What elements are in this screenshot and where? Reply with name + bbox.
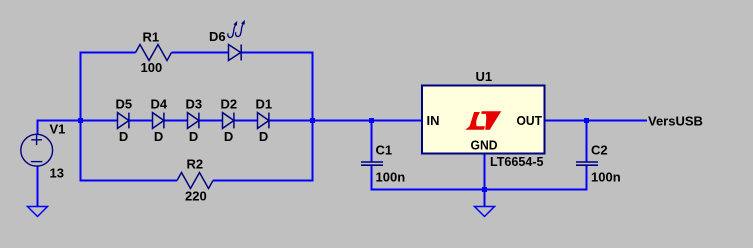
wire R2 row left (80, 180, 178, 182)
wire node B to C1 node (313, 120, 372, 122)
diode D3 (188, 113, 199, 129)
svg-text:D4: D4 (151, 97, 168, 112)
resistor R2 (177, 173, 213, 189)
wire V1 top to left node (38, 121, 81, 135)
ground (under V1) (28, 207, 48, 217)
voltage source V1 (21, 134, 53, 166)
wire right vertical (312, 52, 314, 182)
svg-text:D5: D5 (116, 97, 133, 112)
junction node C1 tap (369, 118, 374, 123)
regulator U1 body (422, 86, 545, 154)
svg-text:220: 220 (185, 189, 207, 204)
wire OUT pin to C2 node (544, 120, 587, 122)
capacitor C1 (361, 162, 383, 165)
svg-text:VersUSB: VersUSB (648, 114, 703, 129)
wire D6 to top-right corner (241, 52, 313, 54)
diode D2 (223, 113, 234, 129)
wire C2 bottom lead to rail (586, 166, 588, 190)
LED D6 (229, 45, 242, 61)
svg-text:U1: U1 (476, 69, 493, 84)
wire D2 to D1 (234, 120, 258, 122)
wire D3 to D2 (199, 120, 223, 122)
svg-text:R2: R2 (187, 157, 204, 172)
wire D1 to node B (269, 120, 313, 122)
LT logo (465, 111, 501, 130)
svg-text:IN: IN (427, 113, 440, 128)
svg-text:OUT: OUT (517, 113, 543, 128)
svg-text:C1: C1 (376, 143, 393, 158)
svg-text:D2: D2 (221, 97, 238, 112)
svg-text:D: D (259, 129, 268, 144)
svg-text:GND: GND (471, 138, 498, 153)
svg-text:D: D (154, 129, 163, 144)
diode D1 (258, 113, 269, 129)
svg-text:R1: R1 (143, 30, 160, 45)
wire C2 top lead (586, 121, 588, 162)
wire C2 node to VersUSB label (587, 120, 648, 122)
wire left vertical (80, 52, 82, 182)
wire mid row node to D5 (81, 120, 118, 122)
svg-text:D3: D3 (186, 97, 203, 112)
wire C1 top lead (371, 121, 373, 162)
svg-text:D6: D6 (209, 29, 226, 44)
svg-text:LT6654-5: LT6654-5 (490, 154, 544, 169)
diode D4 (153, 113, 164, 129)
wire R2 row right (213, 180, 314, 182)
capacitor C2 (576, 162, 598, 165)
wire C1 bottom lead to rail (371, 166, 373, 190)
diode D5 (118, 113, 129, 129)
svg-text:D: D (189, 129, 198, 144)
wire V1 bottom to ground (37, 166, 39, 206)
wire U1 GND pin to rail (484, 154, 486, 190)
svg-text:V1: V1 (50, 122, 66, 137)
wire C1 node to IN pin (372, 120, 424, 122)
junction node OUT / C2 tap (584, 118, 589, 123)
svg-text:100: 100 (141, 60, 163, 75)
svg-text:C2: C2 (591, 143, 608, 158)
wire D5 to D4 (129, 120, 153, 122)
junction node ground rail (482, 187, 487, 192)
svg-text:100n: 100n (591, 170, 621, 185)
LED D6 light arrows (228, 21, 244, 37)
svg-text:13: 13 (50, 166, 64, 181)
wire R1 to D6 (172, 52, 229, 54)
svg-text:D1: D1 (256, 97, 273, 112)
wire D4 to D3 (164, 120, 188, 122)
resistor R1 (136, 45, 172, 61)
wire top row left of R1 (80, 52, 136, 54)
wire rail node to ground symbol (484, 190, 486, 207)
svg-text:100n: 100n (376, 170, 406, 185)
junction node B (right of diode string) (310, 118, 315, 123)
svg-text:D: D (224, 129, 233, 144)
ground (under U1) (475, 207, 495, 217)
junction node A (left) (78, 118, 83, 123)
wire ground rail (371, 189, 588, 191)
svg-text:D: D (119, 129, 128, 144)
